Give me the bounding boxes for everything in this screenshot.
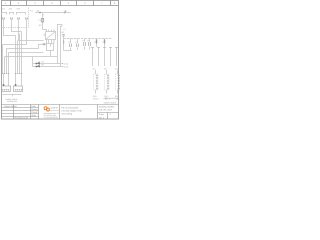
svg-text:Check: Check bbox=[31, 111, 38, 114]
svg-text:=01+A1-2017: =01+A1-2017 bbox=[99, 108, 113, 111]
svg-text:m01 wiring: m01 wiring bbox=[62, 112, 73, 115]
svg-text:4G1.5: 4G1.5 bbox=[93, 97, 100, 100]
svg-text:4G1.5: 4G1.5 bbox=[116, 97, 121, 100]
svg-text:Date: Date bbox=[24, 116, 29, 119]
svg-text:P0-10 rotomolder: P0-10 rotomolder bbox=[62, 106, 79, 109]
svg-text:Date: Date bbox=[31, 105, 36, 108]
svg-text:automation: automation bbox=[50, 109, 59, 112]
svg-text:Page: Page bbox=[99, 113, 105, 116]
svg-text:=DOC+1/2.a: =DOC+1/2.a bbox=[104, 101, 117, 104]
svg-text:drawing number: drawing number bbox=[99, 105, 115, 108]
svg-text:connection: connection bbox=[7, 100, 18, 103]
svg-text:Appr: Appr bbox=[31, 114, 36, 117]
svg-text:+41 44 000 00 00: +41 44 000 00 00 bbox=[44, 116, 58, 119]
svg-text:4G1.5: 4G1.5 bbox=[105, 97, 112, 100]
svg-text:Drawn: Drawn bbox=[31, 108, 38, 111]
svg-text:Datum Name: Datum Name bbox=[4, 105, 18, 108]
svg-text:Tot. 2: Tot. 2 bbox=[99, 116, 105, 119]
svg-text:Revision: Revision bbox=[15, 116, 24, 119]
svg-text:L01.04E Spider+Tub: L01.04E Spider+Tub bbox=[62, 109, 83, 112]
